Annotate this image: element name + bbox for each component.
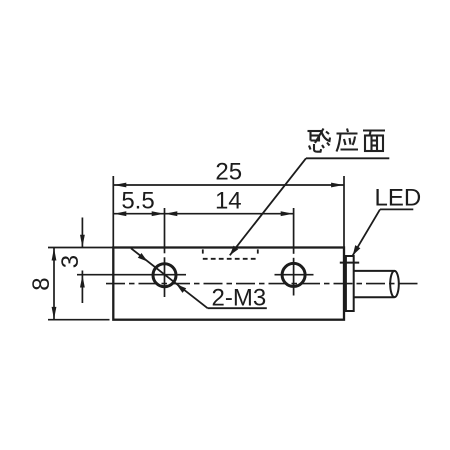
mounting hole 1 horizontal crosshair + 3-dim extension — [77, 274, 186, 276]
dim 25: left arrowhead — [114, 183, 127, 188]
top edge extension line (left, for 8 dim) — [48, 247, 113, 249]
dim 8: bottom arrowhead — [52, 307, 57, 320]
bottom edge extension line (left, for 8 dim) — [48, 319, 110, 321]
dim 5.5 / 14: dimension line — [114, 213, 293, 215]
dim 25: dimension line — [114, 184, 344, 186]
svg-text:25: 25 — [215, 159, 242, 186]
mounting hole 2 circle — [282, 263, 305, 286]
sensing face dashed box — [203, 249, 258, 258]
svg-text:8: 8 — [28, 277, 55, 290]
center axis dash-dot line — [106, 283, 418, 285]
label text 感应面 (drawn strokes: char 应) — [337, 129, 359, 152]
dim 8: dimension line — [53, 248, 55, 319]
dim 5.5: right arrowhead — [152, 211, 165, 216]
svg-text:3: 3 — [57, 255, 84, 268]
leader line for sensing face label — [230, 158, 389, 255]
svg-text:2-M3: 2-M3 — [212, 285, 267, 312]
cable end ellipse — [390, 271, 399, 297]
LED tick mark — [340, 262, 359, 264]
dim 25: left extension line above body — [112, 176, 114, 248]
dim 3: upper shaft with down arrowhead — [80, 218, 85, 248]
cable bottom line — [354, 296, 395, 298]
svg-text:5.5: 5.5 — [121, 188, 154, 215]
dim 5.5: left arrowhead — [114, 211, 127, 216]
dim 14: right arrowhead — [281, 211, 294, 216]
svg-text:14: 14 — [215, 188, 242, 215]
label text 感应面 (drawn strokes: char 感) — [308, 129, 331, 152]
label text 感应面 (drawn strokes: char 面) — [363, 131, 385, 152]
svg-text:LED: LED — [375, 185, 422, 212]
mounting hole 2 vertical crosshair — [293, 208, 295, 254]
mounting hole 2 horizontal crosshair — [275, 274, 314, 276]
leader line for 2-M3 label through hole 1 — [131, 248, 267, 308]
dim 3: lower shaft with up arrowhead — [80, 271, 85, 304]
mounting hole 1 vertical crosshair — [164, 208, 166, 253]
sensor body outline — [113, 248, 344, 320]
dim 25: right arrowhead — [331, 183, 344, 188]
cable top line — [354, 270, 395, 272]
mounting hole 1 circle — [153, 264, 176, 287]
dim 14: left arrowhead — [165, 211, 178, 216]
dim 8: top arrowhead — [52, 248, 57, 261]
dim 25: right extension line above body — [343, 176, 345, 248]
leader line for LED label — [353, 209, 414, 255]
LED ring strip — [346, 256, 354, 311]
